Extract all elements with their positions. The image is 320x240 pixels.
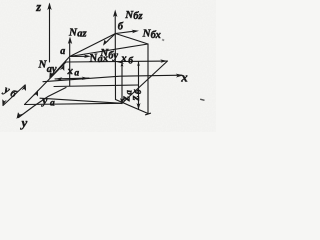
dimension vertical za [121, 62, 123, 103]
label zb rotated [128, 89, 143, 101]
plate left edge / yb dimension [25, 62, 67, 105]
svg-text:ау: ау [47, 64, 57, 75]
label za rotated [118, 90, 133, 102]
yb dim line top arrowhead [22, 84, 27, 91]
bar a-b [70, 34, 116, 57]
speck mid right [162, 39, 165, 42]
zb dim bottom arrowhead [137, 103, 141, 110]
Nay vector shaft [51, 57, 70, 78]
xb dim left arrowhead [117, 61, 124, 64]
xa dim left arrowhead [55, 77, 62, 80]
drop line below b with Nbz shaft [114, 13, 116, 100]
C foot tick [146, 113, 151, 115]
za dim top arrowhead [121, 62, 124, 67]
horizontal reference through a foot [54, 85, 139, 87]
svg-text:y: y [20, 115, 28, 130]
yb dimension line [3, 85, 25, 106]
svg-text:z: z [35, 0, 41, 14]
xa dimension line [55, 77, 89, 80]
Nax vector arrowhead [84, 55, 91, 59]
ground trace b-C [116, 100, 149, 114]
Nbx vector arrowhead [132, 30, 139, 34]
xa dim right arrowhead [82, 77, 89, 80]
za dim bottom arrowhead [120, 98, 124, 105]
svg-text:x: x [120, 53, 127, 65]
svg-text:a: a [60, 46, 65, 57]
svg-text:x: x [180, 69, 188, 84]
drop line below a [69, 58, 71, 86]
z axis arrowhead [47, 3, 51, 11]
Nbx vector shaft [116, 31, 135, 33]
y axis arrowhead [17, 112, 23, 119]
svg-text:ах: ах [97, 53, 109, 65]
svg-text:z: z [128, 96, 142, 102]
label yb rotated [0, 83, 19, 101]
svg-text:бу: бу [108, 51, 118, 62]
svg-text:бz: бz [133, 11, 143, 22]
bar a-C [70, 44, 148, 57]
y axis [19, 88, 67, 118]
label Nax [88, 51, 109, 66]
dimension vertical zb [138, 62, 140, 110]
speck right [200, 99, 205, 101]
svg-text:у: у [40, 95, 47, 107]
Naz vector arrowhead [68, 37, 72, 45]
bar b-C [116, 34, 149, 45]
plate far edge / xb dimension line [66, 60, 167, 63]
svg-text:x: x [67, 65, 74, 77]
svg-text:бх: бх [151, 30, 161, 41]
svg-text:a: a [74, 68, 79, 78]
z axis [49, 4, 51, 62]
drop line below C [147, 44, 149, 114]
x axis arrowhead [176, 74, 184, 78]
yb dim upper arrowhead on left edge [60, 64, 65, 71]
svg-text:a: a [123, 90, 133, 95]
Nby vector arrowhead [103, 40, 109, 46]
svg-text:б: б [133, 89, 143, 94]
Nay vector arrowhead [49, 72, 54, 79]
x axis [43, 75, 182, 82]
Naz vector shaft [69, 41, 71, 57]
zb dim top arrowhead [137, 62, 140, 67]
svg-text:б: б [118, 22, 124, 33]
ya level line [40, 98, 122, 103]
xb dim right arrowhead [160, 59, 167, 62]
Nby vector shaft [105, 34, 116, 44]
plate near edge [25, 103, 123, 104]
Nbz vector arrowhead [113, 10, 117, 18]
plate right edge [122, 61, 168, 103]
svg-text:az: az [77, 28, 87, 39]
Nax vector shaft [70, 55, 87, 57]
ya dim arrowhead on y axis [34, 90, 39, 97]
svg-text:а: а [50, 99, 55, 109]
yb dim line bottom arrowhead [2, 99, 7, 106]
